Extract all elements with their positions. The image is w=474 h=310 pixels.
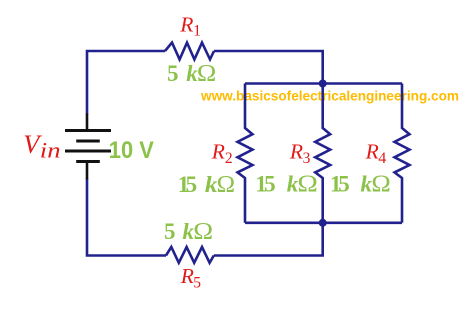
wire top rail of parallel bank: [245, 82, 402, 85]
node A junction dot: [319, 80, 327, 88]
wire node B to bottom wire: [214, 223, 323, 256]
svg-text:R: R: [180, 264, 194, 288]
svg-text:Ω: Ω: [197, 61, 216, 87]
wire bottom-left (R5 to battery bottom): [87, 179, 166, 256]
svg-text:in: in: [40, 139, 61, 163]
battery V_in: [65, 114, 111, 180]
svg-text:5: 5: [193, 274, 201, 291]
svg-text:4: 4: [378, 150, 386, 167]
svg-text:5: 5: [186, 172, 198, 197]
svg-text:5: 5: [338, 172, 350, 197]
svg-text:R: R: [211, 139, 225, 163]
wire top-left (battery top to R1): [87, 51, 165, 115]
svg-text:R: R: [365, 139, 379, 163]
svg-text:Ω: Ω: [193, 218, 213, 244]
resistor R4: [395, 84, 410, 223]
wire top-right (R1 to node A): [214, 51, 323, 84]
svg-text:k: k: [205, 173, 218, 198]
wire bottom rail of parallel bank: [245, 222, 402, 225]
svg-text:5: 5: [167, 61, 179, 86]
svg-text:10 V: 10 V: [109, 137, 155, 164]
svg-text:3: 3: [303, 150, 311, 167]
svg-text:www.basicsofelectricalengineer: www.basicsofelectricalengineering.com: [200, 88, 459, 104]
svg-text:R: R: [289, 139, 303, 163]
resistor R5: [166, 247, 214, 263]
svg-text:Ω: Ω: [297, 170, 317, 197]
svg-text:5: 5: [164, 219, 176, 244]
resistor R2: [238, 84, 253, 223]
svg-text:Ω: Ω: [371, 171, 390, 197]
node B junction dot: [319, 219, 327, 227]
svg-text:1: 1: [193, 23, 201, 40]
svg-text:5: 5: [264, 171, 276, 196]
resistor R3: [315, 84, 330, 223]
svg-text:Ω: Ω: [217, 171, 235, 198]
svg-text:2: 2: [225, 150, 233, 167]
resistor R1: [165, 43, 214, 60]
svg-text:R: R: [179, 12, 193, 36]
